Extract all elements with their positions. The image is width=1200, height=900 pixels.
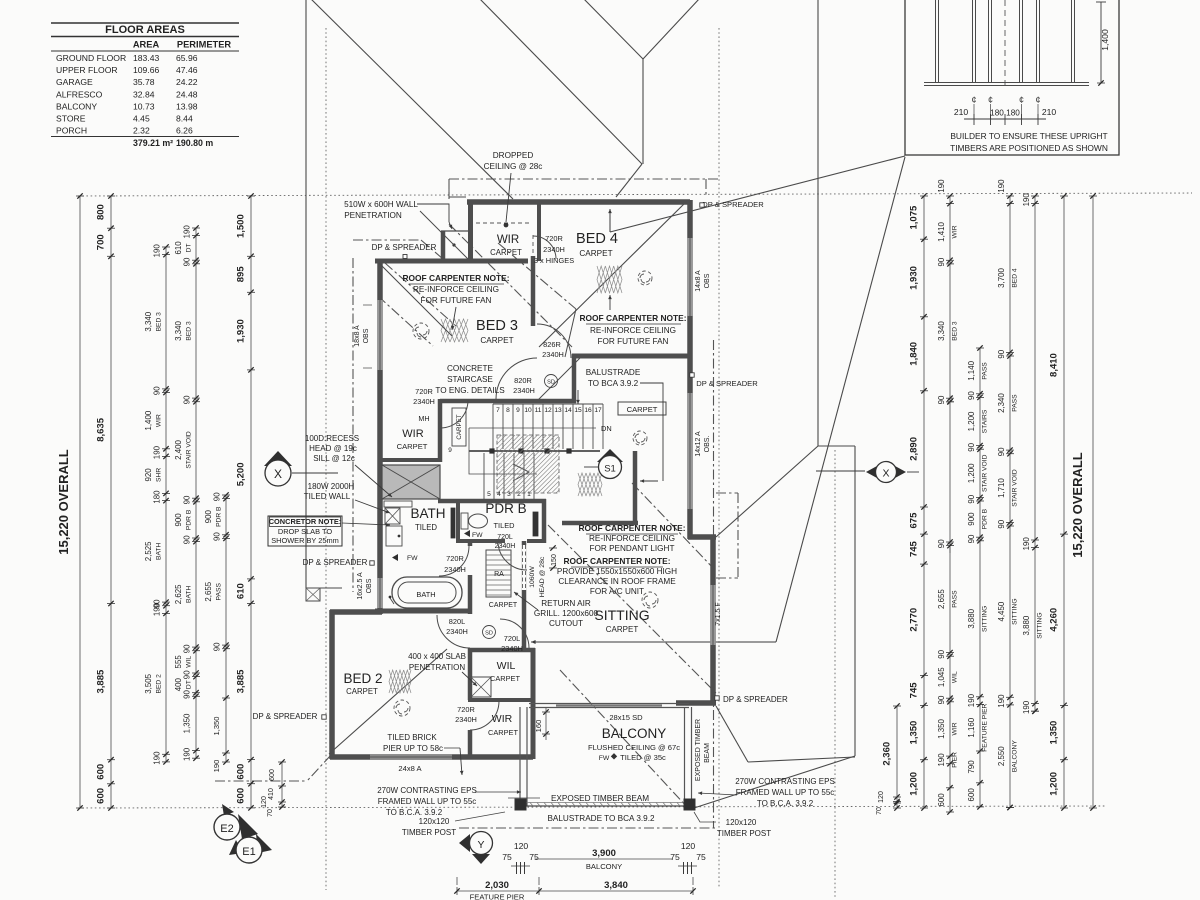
svg-text:270W CONTRASTING EPS: 270W CONTRASTING EPS	[377, 786, 477, 795]
svg-text:STORE: STORE	[56, 114, 86, 124]
svg-text:¢: ¢	[988, 95, 993, 105]
svg-text:2340H: 2340H	[413, 397, 435, 406]
overhang corner step solid	[449, 189, 466, 197]
svg-text:180: 180	[990, 109, 1004, 118]
svg-text:2340H: 2340H	[513, 386, 535, 395]
svg-text:190: 190	[153, 602, 162, 616]
svg-text:3,880: 3,880	[1022, 615, 1031, 635]
svg-text:SD: SD	[547, 380, 555, 386]
window right OBS 14x8	[687, 238, 693, 316]
roof valley dash-dot bed4 a	[498, 243, 576, 309]
right chain lower wil/wir/pier	[949, 542, 951, 812]
svg-text:ALFRESCO: ALFRESCO	[56, 89, 103, 99]
svg-text:FEATURE PIER: FEATURE PIER	[982, 703, 989, 751]
exterior wall right step at sitting	[688, 534, 716, 540]
svg-text:75: 75	[696, 852, 706, 862]
roof valley dash-dot balcony	[560, 670, 688, 808]
svg-text:FEATURE PIER: FEATURE PIER	[470, 893, 525, 900]
balcony timber post left	[515, 799, 526, 810]
svg-text:Y: Y	[477, 839, 484, 851]
svg-text:120: 120	[261, 796, 268, 808]
svg-text:2,625: 2,625	[174, 584, 183, 604]
wall wil left	[468, 648, 473, 759]
wall wir-mid bottom / shower top	[378, 458, 442, 462]
wall wir-top / bed4	[537, 204, 541, 261]
svg-text:BED 3: BED 3	[952, 321, 959, 341]
svg-text:CARPET: CARPET	[480, 336, 513, 345]
upper roof eave diagonal left	[308, 0, 513, 199]
door wil 720L	[500, 619, 529, 648]
svg-text:STAIR VOID: STAIR VOID	[1012, 469, 1019, 507]
wall pdr bottom	[458, 539, 546, 543]
svg-text:PIER UP TO 58c: PIER UP TO 58c	[383, 744, 443, 753]
svg-text:1,500: 1,500	[236, 214, 247, 238]
balcony left edge	[519, 707, 521, 806]
svg-text:1,160: 1,160	[967, 717, 976, 737]
svg-text:17: 17	[594, 407, 602, 414]
svg-text:SD: SD	[485, 631, 493, 637]
svg-text:BED 3: BED 3	[476, 318, 518, 334]
svg-text:1,710: 1,710	[997, 478, 1006, 498]
svg-text:4,260: 4,260	[1049, 608, 1060, 632]
bath cabinet	[386, 526, 402, 546]
svg-text:7: 7	[496, 407, 500, 414]
svg-text:13.98: 13.98	[176, 101, 198, 111]
svg-text:TILED: TILED	[415, 523, 437, 532]
svg-text:BATH: BATH	[156, 543, 163, 561]
left chain pass	[225, 495, 227, 649]
svg-text:900: 900	[204, 510, 213, 524]
svg-text:DP & SPREADER: DP & SPREADER	[253, 712, 318, 721]
svg-text:2,400: 2,400	[174, 439, 183, 459]
svg-text:600: 600	[269, 769, 276, 781]
wall pass west	[572, 354, 577, 403]
svg-text:FOR A/C UNIT: FOR A/C UNIT	[590, 587, 644, 596]
svg-text:90: 90	[213, 642, 222, 651]
overall chain left 15,220	[79, 196, 81, 808]
door bed2 820L	[437, 615, 470, 648]
left chain bed3/wir/shr/bath	[165, 247, 167, 762]
ground roof hip bottom small	[716, 706, 748, 762]
svg-text:3,880: 3,880	[967, 608, 976, 628]
svg-text:BALCONY: BALCONY	[586, 862, 622, 871]
svg-text:TIMBER POST: TIMBER POST	[717, 829, 771, 838]
roof hip solid top-left	[420, 211, 468, 259]
svg-text:2340H: 2340H	[455, 715, 477, 724]
svg-text:TILED BRICK: TILED BRICK	[387, 733, 437, 742]
svg-text:1,400: 1,400	[144, 410, 153, 430]
svg-text:90: 90	[967, 534, 976, 543]
svg-text:BED 2: BED 2	[343, 671, 382, 686]
svg-text:190: 190	[212, 760, 221, 773]
svg-text:9: 9	[448, 447, 452, 454]
left bottom chain 1350/190	[225, 649, 227, 762]
svg-text:2.32: 2.32	[133, 126, 150, 136]
svg-text:14x8 A: 14x8 A	[695, 270, 702, 292]
overhang dash-dot bottom left	[215, 780, 307, 782]
exterior wall bottom bed2	[330, 754, 533, 760]
svg-text:WIL: WIL	[497, 660, 516, 672]
svg-text:400: 400	[174, 677, 183, 691]
svg-text:1,140: 1,140	[967, 360, 976, 380]
bath floor waste box	[385, 508, 400, 524]
svg-text:75: 75	[670, 852, 680, 862]
balcony right edge beams	[684, 707, 686, 806]
svg-text:PENETRATION: PENETRATION	[344, 211, 402, 220]
wil slab penetration box	[471, 677, 491, 697]
svg-text:BED 2: BED 2	[156, 674, 163, 694]
svg-text:DT: DT	[186, 243, 193, 252]
wall sitting west	[522, 541, 527, 650]
wall s1 bottom	[562, 521, 638, 526]
wall s1 right	[633, 451, 638, 525]
svg-text:3,885: 3,885	[96, 669, 107, 693]
timber positioning detail box	[905, 0, 1119, 155]
upper roof valley to wall right	[705, 179, 707, 197]
svg-text:BALCONY: BALCONY	[56, 101, 97, 111]
svg-text:190: 190	[153, 244, 162, 258]
svg-text:TO B.C.A. 3.9.2: TO B.C.A. 3.9.2	[386, 808, 443, 817]
svg-text:DP & SPREADER: DP & SPREADER	[702, 200, 764, 209]
svg-text:BALCONY: BALCONY	[602, 726, 667, 741]
svg-text:24.48: 24.48	[176, 89, 198, 99]
svg-text:8.44: 8.44	[176, 114, 193, 124]
svg-text:555: 555	[174, 655, 183, 669]
overall chain right 15,220	[1092, 196, 1094, 808]
svg-text:24x8 A: 24x8 A	[398, 764, 422, 773]
svg-text:PENETRATION: PENETRATION	[409, 663, 466, 672]
svg-text:CARPET: CARPET	[490, 248, 522, 257]
svg-text:BATH: BATH	[186, 586, 193, 604]
svg-text:DP & SPREADER: DP & SPREADER	[303, 558, 368, 567]
roof valley dash-dot bed3 b	[378, 296, 433, 346]
dim 3,900 balcony	[535, 858, 672, 860]
svg-text:4,450: 4,450	[997, 601, 1006, 621]
svg-text:SITTING: SITTING	[982, 606, 989, 632]
stair section marker S1	[597, 449, 623, 462]
svg-text:FOR FUTURE FAN: FOR FUTURE FAN	[598, 337, 669, 346]
svg-text:32.84: 32.84	[133, 89, 155, 99]
svg-text:TILED @ 35c: TILED @ 35c	[620, 753, 666, 762]
wir lower outer wall right	[531, 648, 536, 759]
smoke detector stairs	[545, 375, 558, 388]
svg-text:90: 90	[183, 644, 192, 653]
svg-text:35.78: 35.78	[133, 77, 155, 87]
stair mid landing rail	[469, 450, 600, 452]
svg-text:STAIR VOID: STAIR VOID	[982, 454, 989, 492]
svg-text:100D:RECESS: 100D:RECESS	[305, 434, 359, 443]
svg-text:TILED: TILED	[494, 521, 515, 530]
svg-text:90: 90	[997, 349, 1006, 358]
svg-text:15,220 OVERALL: 15,220 OVERALL	[56, 449, 71, 555]
svg-text:PASS: PASS	[982, 362, 989, 380]
svg-text:GROUND FLOOR: GROUND FLOOR	[56, 53, 126, 63]
wir door dashed jamb	[532, 235, 534, 259]
svg-text:2340H: 2340H	[501, 644, 523, 653]
svg-text:120x120: 120x120	[726, 818, 757, 827]
wall wil wir divider	[468, 698, 535, 702]
svg-text:PASS: PASS	[216, 583, 223, 601]
svg-text:AREA: AREA	[133, 40, 160, 50]
svg-text:190: 190	[1022, 537, 1031, 551]
svg-text:TO ENG. DETAILS: TO ENG. DETAILS	[435, 386, 505, 395]
exterior wall bed2 top link	[330, 609, 382, 615]
svg-text:CONCRETE: CONCRETE	[447, 364, 493, 373]
svg-text:2340H: 2340H	[495, 543, 516, 550]
svg-text:1,200: 1,200	[967, 411, 976, 431]
svg-text:190: 190	[1022, 193, 1031, 207]
svg-text:745: 745	[909, 540, 920, 557]
svg-text:PASS: PASS	[952, 590, 959, 608]
svg-text:190: 190	[937, 753, 946, 767]
svg-text:RE-INFORCE CEILING: RE-INFORCE CEILING	[413, 285, 499, 294]
svg-text:720R: 720R	[457, 705, 475, 714]
svg-text:90: 90	[997, 447, 1006, 456]
roof hip solid through bed3	[379, 263, 452, 336]
overhang jog sitting bump right	[737, 493, 739, 578]
svg-text:7x1.5 F: 7x1.5 F	[715, 602, 722, 625]
svg-text:GRILL. 1200x600: GRILL. 1200x600	[534, 609, 599, 618]
floor areas table	[51, 23, 239, 148]
svg-text:190: 190	[967, 693, 976, 707]
svg-text:210: 210	[954, 107, 969, 117]
svg-text:109.66: 109.66	[133, 65, 160, 75]
svg-text:190: 190	[937, 179, 946, 193]
right chain wir/bed3/pass/wil	[949, 196, 951, 402]
svg-text:180: 180	[153, 490, 162, 504]
exterior wall balcony step	[676, 700, 716, 706]
wall bed3 right upper	[531, 256, 536, 326]
svg-text:1,350: 1,350	[909, 721, 920, 745]
svg-text:PDR B: PDR B	[186, 509, 193, 530]
bath door jamb bar	[451, 508, 455, 538]
svg-text:PROVIDE 1550x1550x600 HIGH: PROVIDE 1550x1550x600 HIGH	[557, 567, 677, 576]
right chain bed4/pass/stairvoid/sitting/balcony	[1009, 196, 1011, 808]
svg-text:ROOF CARPENTER NOTE:: ROOF CARPENTER NOTE:	[578, 523, 685, 533]
upper roof valley to wall left	[616, 164, 642, 197]
svg-text:PORCH: PORCH	[56, 126, 87, 136]
svg-text:120: 120	[681, 841, 696, 851]
section marker Y balcony	[459, 834, 470, 852]
window bottom bed2 24x8	[370, 754, 452, 760]
wall bath bottom	[375, 609, 470, 614]
svg-text:¢: ¢	[971, 95, 976, 105]
svg-text:SITTING: SITTING	[594, 607, 649, 623]
section marker X right	[866, 466, 877, 478]
door wir-mid 720R	[440, 400, 468, 428]
svg-text:70: 70	[876, 807, 883, 815]
wall bath pdr divider	[456, 501, 460, 543]
svg-text:PIER: PIER	[952, 752, 959, 768]
exterior wall bed2 left	[329, 610, 335, 759]
ground roof eave bottom	[748, 757, 855, 762]
svg-text:270W CONTRASTING EPS: 270W CONTRASTING EPS	[735, 777, 835, 786]
roof valley dash-dot sitting b	[632, 483, 715, 570]
wall penetration box left	[441, 231, 446, 261]
detail centreline (dashed)	[1004, 0, 1006, 90]
svg-text:RETURN AIR: RETURN AIR	[541, 599, 591, 608]
overhang diagonal SW corner bed2	[307, 755, 331, 781]
svg-text:DP & SPREADER: DP & SPREADER	[372, 243, 437, 252]
svg-text:120x120: 120x120	[419, 817, 450, 826]
balcony timber post right	[684, 799, 695, 810]
svg-text:12: 12	[544, 407, 552, 414]
svg-text:745: 745	[909, 682, 920, 699]
svg-text:675: 675	[909, 512, 920, 529]
shower (tiled, dropped slab)	[382, 465, 440, 499]
svg-text:BALUSTRADE: BALUSTRADE	[586, 368, 641, 377]
svg-text:DP & SPREADER: DP & SPREADER	[723, 695, 788, 704]
staircase upper flight treads	[492, 404, 494, 449]
svg-text:4: 4	[497, 491, 501, 498]
svg-text:610: 610	[236, 583, 247, 599]
wall bath east lower	[468, 575, 473, 614]
svg-text:90: 90	[213, 532, 222, 541]
right chain segments outer	[923, 196, 925, 808]
svg-text:510W x 600H WALL: 510W x 600H WALL	[344, 200, 418, 209]
svg-text:E1: E1	[242, 846, 255, 858]
svg-text:HEAD @ 19c: HEAD @ 19c	[309, 444, 357, 453]
overhang dash-dot left of bath	[352, 258, 354, 592]
callout line to detail box to timber wall	[610, 156, 905, 232]
svg-text:4.45: 4.45	[133, 114, 150, 124]
overhang dash-dot top	[449, 178, 719, 180]
window sitting 7x1.5 F	[710, 585, 716, 645]
wall pdr right	[542, 499, 547, 543]
window left OBS 18x8	[377, 300, 383, 370]
svg-text:2,770: 2,770	[909, 608, 920, 632]
svg-text:183.43: 183.43	[133, 53, 160, 63]
svg-text:65.96: 65.96	[176, 53, 198, 63]
stair carpet label vertical	[452, 408, 466, 446]
exterior wall top	[467, 199, 690, 205]
wall wir bottom / bed3 top	[375, 259, 528, 264]
svg-text:900: 900	[967, 512, 976, 526]
reference dotted line top	[78, 193, 1192, 196]
overhang dash-dot right of sitting	[713, 340, 715, 828]
carpet boxed label pass	[618, 402, 666, 415]
ground roof ridge right vertical	[817, 0, 819, 446]
future fan crosshatch bed2	[389, 670, 411, 693]
svg-text:DROP SLAB TO: DROP SLAB TO	[278, 527, 332, 536]
svg-text:2,655: 2,655	[937, 589, 946, 609]
reference dotted line x=835	[834, 450, 836, 897]
svg-text:1,075: 1,075	[909, 205, 920, 229]
detail vertical dim 1,400	[1100, 2, 1102, 83]
roof valley dash-dot bed3 a	[385, 263, 456, 326]
svg-text:90: 90	[183, 535, 192, 544]
svg-text:CARPET: CARPET	[627, 405, 658, 414]
svg-text:CARPET: CARPET	[488, 728, 518, 737]
svg-text:90: 90	[937, 395, 946, 404]
svg-text:3,840: 3,840	[604, 880, 628, 891]
concretor note box	[268, 516, 342, 546]
svg-text:190: 190	[153, 751, 162, 765]
svg-text:90: 90	[937, 695, 946, 704]
svg-text:FRAMED WALL UP TO 55c: FRAMED WALL UP TO 55c	[378, 797, 477, 806]
svg-text:720R: 720R	[446, 554, 464, 563]
rainwater head left	[306, 588, 320, 601]
svg-text:379.21 m²: 379.21 m²	[133, 138, 173, 148]
svg-text:DP & SPREADER: DP & SPREADER	[696, 379, 758, 388]
ground roof hip to plan corner right	[716, 446, 818, 537]
svg-text:190: 190	[997, 179, 1006, 193]
svg-text:CARPET: CARPET	[606, 625, 639, 634]
upper roof hip to apex right	[643, 0, 700, 59]
future fan crosshatch bed3	[441, 319, 468, 342]
svg-text:WIR: WIR	[952, 722, 959, 735]
svg-text:16x2.5 A: 16x2.5 A	[357, 572, 364, 600]
svg-text:2,340: 2,340	[997, 393, 1006, 413]
svg-text:BATH: BATH	[410, 506, 445, 521]
svg-text:OBS.: OBS.	[704, 436, 711, 453]
svg-text:190: 190	[183, 747, 192, 761]
svg-text:160: 160	[534, 720, 543, 733]
detail dimension 210/180/180/210	[964, 118, 1046, 120]
svg-text:FOR PENDANT LIGHT: FOR PENDANT LIGHT	[590, 544, 675, 553]
svg-text:720R: 720R	[415, 387, 433, 396]
right chain 2,360	[896, 706, 898, 808]
svg-text:BALUSTRADE TO BCA 3.9.2: BALUSTRADE TO BCA 3.9.2	[547, 814, 655, 823]
future fan crosshatch bed4	[597, 266, 622, 293]
svg-text:820R: 820R	[514, 376, 532, 385]
reference dotted line bottom	[78, 806, 1105, 808]
svg-text:3,885: 3,885	[236, 669, 247, 693]
bath tub	[392, 577, 462, 608]
svg-text:90: 90	[967, 391, 976, 400]
svg-text:16: 16	[584, 407, 592, 414]
svg-text:600: 600	[967, 788, 976, 802]
svg-text:3,340: 3,340	[174, 320, 183, 340]
wall wil top	[468, 648, 535, 653]
exterior wall right	[687, 200, 693, 539]
ground roof edge left vertical	[305, 0, 307, 588]
wall penetration box top	[441, 230, 468, 232]
door stair 820R	[496, 358, 537, 399]
dim 2,030 feature pier / 3,840	[457, 890, 693, 892]
ground roof right eave vertical	[854, 446, 856, 756]
svg-text:6.26: 6.26	[176, 126, 193, 136]
svg-text:13: 13	[554, 407, 562, 414]
svg-text:¢: ¢	[1019, 95, 1024, 105]
svg-text:BUILDER TO ENSURE THESE UPRIGH: BUILDER TO ENSURE THESE UPRIGHT	[950, 131, 1107, 141]
svg-text:610: 610	[174, 241, 183, 255]
svg-text:10.73: 10.73	[133, 101, 155, 111]
svg-text:2,890: 2,890	[909, 437, 920, 461]
svg-text:1,200: 1,200	[1049, 772, 1060, 796]
svg-text:FW: FW	[407, 555, 418, 562]
svg-text:WIL: WIL	[952, 671, 959, 683]
svg-text:1,350: 1,350	[1049, 721, 1060, 745]
svg-text:X: X	[274, 467, 282, 481]
roof valley solid bed4 V	[565, 309, 576, 357]
svg-text:3,900: 3,900	[592, 848, 616, 859]
svg-text:TILED WALL: TILED WALL	[304, 492, 351, 501]
bath vanity shelf	[384, 501, 412, 507]
svg-text:PDR B: PDR B	[216, 506, 223, 527]
upper roof hip to apex left	[580, 0, 643, 59]
svg-text:3 x HINGES: 3 x HINGES	[534, 256, 574, 265]
svg-text:BEAM: BEAM	[704, 743, 711, 763]
svg-text:1,350: 1,350	[937, 718, 946, 738]
svg-text:SITTING: SITTING	[1012, 598, 1019, 624]
svg-text:920: 920	[144, 468, 153, 482]
svg-text:CLEARANCE IN ROOF FRAME: CLEARANCE IN ROOF FRAME	[558, 577, 676, 586]
exterior wall sitting right	[710, 535, 716, 705]
svg-text:STAIR VOID: STAIR VOID	[186, 431, 193, 469]
ceiling fan sitting	[642, 592, 658, 608]
svg-text:CARPET: CARPET	[397, 442, 428, 451]
